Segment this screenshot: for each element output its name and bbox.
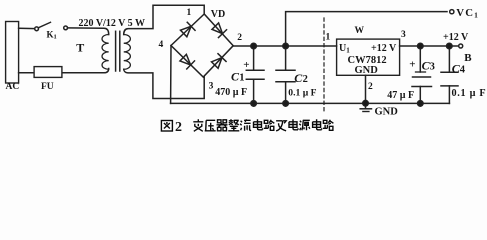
svg-text:VC1: VC1 xyxy=(456,7,479,20)
svg-text:B: B xyxy=(464,52,472,64)
svg-text:2: 2 xyxy=(368,82,373,92)
caption char 源 xyxy=(299,120,310,130)
wire bridge pin 4 to ground rail xyxy=(170,46,172,104)
diode VD edge 4-1 xyxy=(180,22,195,37)
bridge rectifier VD diamond edges xyxy=(171,14,233,77)
transformer T secondary winding xyxy=(124,35,131,70)
svg-text:0.1 µ F: 0.1 µ F xyxy=(288,87,316,98)
junction dot C2 bottom xyxy=(283,101,289,107)
terminal VC1 xyxy=(450,10,454,14)
caption char 流 xyxy=(240,119,251,131)
junction dot C3 top xyxy=(418,43,424,49)
svg-text:3: 3 xyxy=(209,81,214,91)
diode VD edge 3-2 xyxy=(211,54,226,69)
svg-text:3: 3 xyxy=(430,61,435,72)
svg-text:VD: VD xyxy=(211,9,225,20)
svg-text:1: 1 xyxy=(187,8,192,18)
svg-text:W: W xyxy=(355,26,365,36)
svg-text:4: 4 xyxy=(159,40,164,50)
ground rail xyxy=(171,102,450,104)
caption 图 2 变压器整流电路及电源电路 (drawn glyphs) xyxy=(161,121,172,132)
caption char 器 xyxy=(217,120,228,131)
svg-text:220 V/12 V 5 W: 220 V/12 V 5 W xyxy=(79,18,146,29)
svg-text:U1: U1 xyxy=(339,43,350,55)
caption char 路 (2) xyxy=(323,120,334,131)
fuse FU xyxy=(34,67,62,78)
wire AC top to switch K1 xyxy=(19,27,35,29)
caption char 图 xyxy=(161,121,172,132)
svg-text:47 µ F: 47 µ F xyxy=(387,90,414,101)
svg-text:GND: GND xyxy=(375,107,399,118)
wire bridge pin 2 to regulator input xyxy=(233,45,336,47)
svg-text:+: + xyxy=(243,59,249,71)
caption char 变 xyxy=(193,119,203,131)
svg-text:+12 V: +12 V xyxy=(371,43,397,54)
capacitor C3 xyxy=(412,46,432,103)
junction dot regulator GND xyxy=(363,100,369,106)
wire regulator output xyxy=(400,45,459,47)
ground symbol xyxy=(360,103,371,111)
caption char 电 xyxy=(254,119,263,130)
wire secondary top to bridge pin 1 xyxy=(124,5,205,34)
diode VD edge 4-3 xyxy=(179,54,194,69)
wire secondary bottom to bridge pin 3 xyxy=(124,69,205,98)
junction dot C2 top xyxy=(283,43,289,49)
capacitor C1 xyxy=(246,46,264,103)
wire switch to transformer primary top xyxy=(68,28,109,35)
svg-text:2: 2 xyxy=(303,74,308,85)
regulator U1 box xyxy=(337,39,400,75)
caption char 路 xyxy=(264,120,275,131)
transformer T primary winding xyxy=(102,35,109,70)
caption char 电 (3) xyxy=(313,119,322,130)
junction dot C4 top xyxy=(447,43,453,49)
svg-text:+12 V: +12 V xyxy=(443,32,469,43)
caption char 及 xyxy=(276,121,286,131)
svg-text:2: 2 xyxy=(237,33,242,43)
junction dot C1 top xyxy=(251,43,257,49)
wire C2 node up and to VC1 terminal xyxy=(286,12,447,46)
junction dot C1 bottom xyxy=(251,101,257,107)
diode VD edge 1-2 xyxy=(211,22,226,37)
transformer core xyxy=(115,31,117,71)
svg-text:FU: FU xyxy=(41,82,54,92)
svg-text:T: T xyxy=(76,41,84,55)
switch K1 xyxy=(35,22,68,30)
svg-text:GND: GND xyxy=(355,65,379,76)
caption char 整 xyxy=(228,119,239,131)
AC source box xyxy=(6,22,19,84)
capacitor C4 xyxy=(441,46,458,103)
junction dot C3 bottom xyxy=(418,101,424,107)
svg-text:3: 3 xyxy=(401,30,406,40)
wire regulator pin 2 to ground rail xyxy=(365,75,367,103)
terminal B +12V xyxy=(459,44,463,48)
svg-text:1: 1 xyxy=(326,33,331,43)
svg-text:+: + xyxy=(409,58,415,70)
wire AC bottom to fuse to primary bottom xyxy=(19,69,109,73)
svg-text:0.1 µ F: 0.1 µ F xyxy=(452,88,487,99)
svg-text:K1: K1 xyxy=(47,30,57,41)
caption char 电 (2) xyxy=(289,119,298,130)
svg-text:1: 1 xyxy=(239,72,244,83)
svg-text:AC: AC xyxy=(6,82,20,92)
capacitor C2 xyxy=(276,46,295,103)
svg-text:470 µ F: 470 µ F xyxy=(215,87,247,98)
dashed separator line xyxy=(323,18,325,114)
svg-text:2: 2 xyxy=(175,120,182,135)
caption char 压 xyxy=(205,120,216,131)
svg-text:4: 4 xyxy=(460,65,466,76)
